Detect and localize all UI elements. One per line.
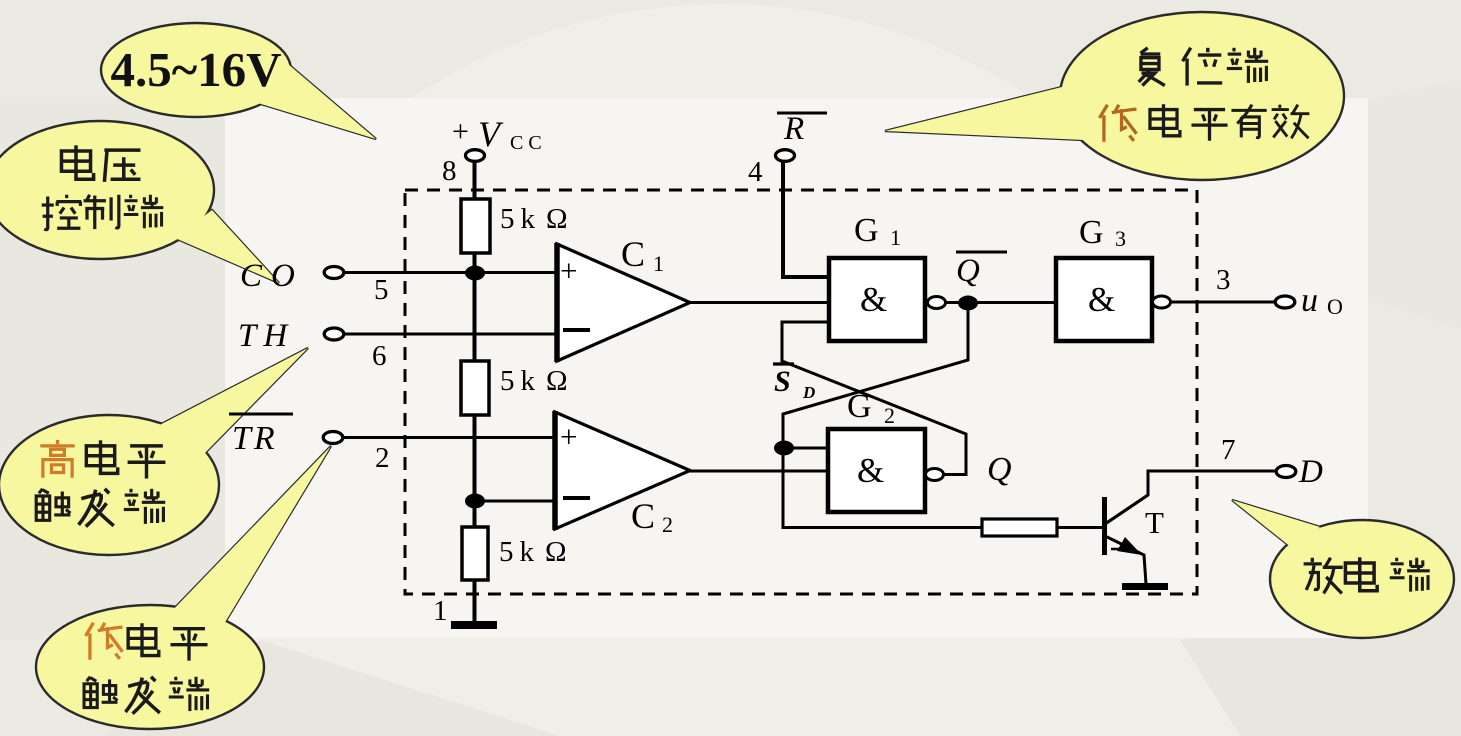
svg-text:+: +	[452, 115, 469, 148]
svg-text:5kΩ: 5kΩ	[500, 365, 568, 397]
svg-text:+: +	[560, 253, 577, 288]
wire: G1 output node Qbar to gate G3	[944, 301, 1056, 304]
terminal pin 4 reset R-bar	[776, 150, 795, 162]
svg-text:5: 5	[374, 274, 389, 306]
svg-text:S: S	[774, 365, 791, 398]
resistor R2 5k	[461, 361, 489, 415]
circuit panel	[225, 98, 1368, 638]
svg-text:CC: CC	[510, 132, 547, 154]
base resistor of transistor T	[982, 519, 1057, 536]
svg-text:G: G	[847, 388, 872, 425]
NAND gate G1	[829, 258, 925, 341]
resistor R3 5k	[462, 527, 488, 580]
NAND gate G2	[828, 429, 925, 512]
svg-text:3: 3	[1115, 226, 1126, 251]
svg-text:Q: Q	[956, 253, 980, 289]
svg-text:D: D	[1298, 454, 1323, 490]
svg-text:T: T	[1145, 505, 1164, 540]
wire: cross-coupling Qbar node to G2 input and transistor base	[783, 303, 982, 528]
svg-text:&: &	[860, 280, 887, 319]
svg-text:D: D	[802, 383, 815, 402]
NAND gate G3	[1056, 258, 1152, 341]
terminal pin 6 TH	[324, 328, 344, 340]
svg-text:7: 7	[1221, 434, 1236, 466]
junction node: divider bottom tap	[465, 494, 485, 509]
wire: C1 output to gate G1 input	[688, 301, 829, 304]
svg-text:R: R	[783, 111, 804, 147]
wire: CO pin 5 to comparator C1 + input	[344, 271, 557, 274]
svg-text:4.5~16V: 4.5~16V	[110, 42, 281, 97]
svg-text:8: 8	[442, 155, 457, 187]
comparator C1	[557, 244, 690, 361]
wire: G2 input stub from junction	[784, 447, 829, 450]
terminal pin 3 output uo	[1275, 296, 1295, 308]
callout bubble: discharge terminal (fang dian duan)	[1232, 500, 1454, 638]
resistor R1 5k	[461, 199, 490, 253]
transistor T	[1102, 497, 1107, 555]
wire: TH pin 6 to comparator C1 - input	[344, 333, 557, 336]
wire: G3 output to pin 3	[1170, 301, 1276, 304]
callout bubble: 4.5~16V supply range	[101, 23, 376, 139]
wire: divider tap to comparator C2 - input	[474, 500, 557, 503]
svg-text:TR: TR	[232, 420, 278, 457]
wire: resistor divider chain from pin 8 to ground	[473, 161, 477, 622]
svg-text:4: 4	[748, 156, 763, 188]
svg-text:3: 3	[1216, 264, 1231, 296]
svg-text:2: 2	[662, 512, 673, 537]
svg-text:&: &	[857, 451, 884, 490]
dashed IC boundary box	[405, 190, 1197, 594]
callout bubble: low-level trigger terminal (di dian ping chu fa duan)	[36, 446, 331, 729]
junction node: pin5 / divider top tap	[465, 266, 485, 281]
callout bubble: high-level trigger terminal (gao dian ping chu fa duan)	[0, 348, 308, 555]
svg-text:Q: Q	[987, 451, 1012, 488]
svg-text:&: &	[1088, 280, 1115, 319]
wire: R-bar pin 4 down to gate G1	[783, 162, 829, 277]
svg-text:6: 6	[372, 340, 387, 372]
svg-text:O: O	[1327, 294, 1343, 319]
callout bubble: voltage control terminal (dian ya kong zhi duan)	[0, 121, 279, 283]
terminal pin 5 CO	[324, 267, 344, 279]
svg-text:u: u	[1301, 282, 1318, 319]
svg-text:1: 1	[433, 595, 448, 627]
svg-text:G: G	[1079, 214, 1104, 251]
terminal pin 7 discharge D	[1276, 466, 1296, 478]
svg-text:2: 2	[884, 403, 895, 428]
terminal pin 2 TR-bar	[323, 432, 343, 444]
svg-text:5kΩ: 5kΩ	[499, 536, 567, 568]
svg-text:2: 2	[375, 442, 390, 474]
svg-text:C: C	[631, 496, 655, 536]
svg-text:1: 1	[890, 225, 901, 250]
ground under transistor emitter	[1122, 583, 1168, 590]
svg-text:C: C	[621, 234, 645, 274]
svg-text:TH: TH	[238, 318, 289, 354]
junction node: G2 input	[774, 441, 794, 456]
ground under divider chain pin 1	[451, 621, 497, 629]
wire: TR pin 2 to comparator C2 + input	[343, 436, 557, 439]
wire: cross-coupling Q output back to G1 input	[782, 322, 966, 475]
junction node: Qbar	[958, 296, 978, 311]
svg-text:G: G	[854, 212, 879, 249]
callout bubble: reset terminal active-low (fu wei duan / di dian ping you xiao)	[885, 12, 1344, 180]
terminal pin 8 VCC	[466, 150, 485, 162]
svg-text:5kΩ: 5kΩ	[500, 203, 568, 235]
svg-text:1: 1	[653, 251, 664, 276]
svg-text:+: +	[560, 419, 577, 454]
wire: transistor base from resistor	[1057, 526, 1104, 529]
wire: C2 output to gate G2 input	[688, 470, 829, 473]
wire: transistor collector to discharge pin 7	[1105, 471, 1277, 524]
comparator C2	[555, 412, 690, 529]
